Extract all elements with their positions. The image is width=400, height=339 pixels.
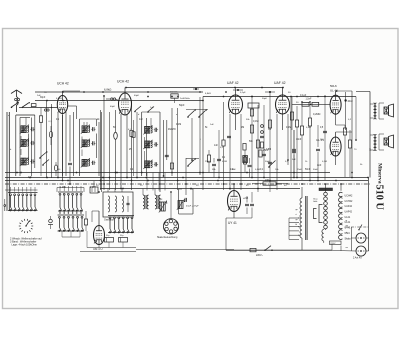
resistor R15 xyxy=(268,120,271,128)
value label 0,1M 5 xyxy=(176,124,181,126)
svg-text:L M K: L M K xyxy=(90,187,96,189)
svg-text:1nF: 1nF xyxy=(214,145,219,147)
svg-text:0,1M: 0,1M xyxy=(286,127,291,129)
capacitor C14 blob xyxy=(193,88,199,90)
filter cell L5 xyxy=(81,125,96,134)
junction dot 70 xyxy=(301,183,303,185)
junction dot 18 xyxy=(67,180,69,182)
value label2 0,1M 2 xyxy=(222,161,227,163)
wire x137 vertical xyxy=(136,112,138,178)
label Skalenbeleuchtung xyxy=(157,236,178,239)
junction dot 51 xyxy=(145,177,147,179)
junction dot 42 xyxy=(100,180,102,182)
coil cell L18 xyxy=(177,199,185,210)
junction dot 60 xyxy=(223,183,225,185)
rotary switch S4 xyxy=(19,219,33,233)
value label 1nF 19 xyxy=(230,169,235,171)
wire x252 vertical xyxy=(251,97,253,179)
value label2 2M 38 xyxy=(268,129,271,131)
wire mains to P2 xyxy=(332,250,356,253)
wire mains y250 xyxy=(226,249,332,251)
value label2 e 33 xyxy=(176,114,178,116)
wire x73.5 vertical xyxy=(73,112,75,176)
svg-text:UAF 42: UAF 42 xyxy=(274,81,286,85)
label 50pF xyxy=(179,104,185,107)
junction dot 77 xyxy=(355,139,357,141)
tube V8 UM4 magic eye xyxy=(94,226,105,245)
svg-text:50pF: 50pF xyxy=(179,104,185,107)
value label2 2nF 13 xyxy=(37,95,41,97)
junction dot 2 xyxy=(102,91,104,93)
box 462kHz xyxy=(171,94,178,103)
junction dot 43 xyxy=(103,183,105,185)
wire B stubs xyxy=(82,122,87,156)
svg-text:0,5M: 0,5M xyxy=(306,127,311,129)
value label2 70 43 xyxy=(354,149,357,151)
svg-text:Skalenbeleuchtung: Skalenbeleuchtung xyxy=(157,236,178,239)
output transformer T4 primary xyxy=(374,103,377,119)
svg-text:240: 240 xyxy=(265,179,270,182)
svg-text:2M: 2M xyxy=(241,127,244,129)
value label2 40pF 20 xyxy=(110,106,116,108)
jumper link bracket2 xyxy=(314,209,317,219)
junction dot 1 xyxy=(62,91,64,93)
wire S1 feeds xyxy=(11,187,36,192)
wire speaker2 frame xyxy=(370,134,384,150)
wire chain tops xyxy=(326,184,342,192)
svg-text:Grau: Grau xyxy=(313,199,317,201)
resistor R13 xyxy=(250,125,253,133)
wire elko bus y247.5 xyxy=(87,247,136,249)
value label2 0,1M 12 xyxy=(322,161,327,163)
tube V1 UCH42 xyxy=(57,96,67,114)
junction dot 11 xyxy=(282,87,284,89)
resistor R16 xyxy=(290,112,293,120)
tube V2 UCH42 xyxy=(119,93,132,115)
value label2 c 31 xyxy=(60,109,62,111)
capacitor C36 xyxy=(212,158,216,178)
heater chain loops xyxy=(339,192,343,239)
svg-text:+215: +215 xyxy=(243,198,249,200)
junction dot 45 xyxy=(115,172,117,174)
value label2 1nF 22 xyxy=(150,107,154,109)
svg-text:gn: gn xyxy=(296,209,298,211)
wire x66 vertical xyxy=(65,112,67,176)
capacitor C2 trim xyxy=(45,109,50,111)
junction dot 74 xyxy=(335,180,337,182)
component C2 small xyxy=(31,104,36,107)
value label2 b 30 xyxy=(10,149,12,151)
label Minerva xyxy=(377,163,383,184)
wire top screen bus y96.5 xyxy=(203,96,356,98)
value label2 60 28 xyxy=(284,185,287,187)
resistor R21 cathode V5 xyxy=(343,125,346,177)
value label 50nF 21 xyxy=(305,169,311,171)
wire x325 vertical xyxy=(324,95,326,180)
junction dot 33 xyxy=(170,191,172,193)
wire V7 anode up xyxy=(233,184,235,191)
junction dot 39 xyxy=(62,180,64,182)
junction dot 84 xyxy=(223,96,225,98)
value label2 f 34 xyxy=(200,139,201,141)
value label2 20 24 xyxy=(96,185,99,187)
switch S5 mains xyxy=(264,246,273,251)
wire x352 vertical xyxy=(351,91,353,177)
coil group L15 xyxy=(143,195,149,209)
output transformer T5 primary xyxy=(374,135,377,151)
value label2 30pF 18 xyxy=(262,98,268,100)
resistor R23 xyxy=(84,211,87,231)
resistor R31 box xyxy=(259,150,262,157)
wire lamp up xyxy=(170,192,172,219)
connector P2 xyxy=(356,246,366,256)
label heater UAF42a xyxy=(345,205,353,208)
label 462 xyxy=(170,92,178,94)
wire C stubs xyxy=(145,118,151,161)
capacitor C34 v4 xyxy=(292,130,296,178)
label 0,1M a xyxy=(253,120,258,123)
wire x368 vertical right xyxy=(366,178,369,252)
label V1 UCH42 xyxy=(57,82,69,86)
wire V3 cathode xyxy=(230,114,241,190)
junction dot 85 xyxy=(251,96,253,98)
svg-text:462kHz: 462kHz xyxy=(168,129,177,131)
wire bottom y249 mid xyxy=(136,249,234,251)
wire V4 anode xyxy=(282,88,284,96)
junction dot 88 xyxy=(309,101,311,103)
junction dot 30 xyxy=(351,177,353,179)
value label2 40pF 21 xyxy=(134,95,140,97)
junction dot 79 xyxy=(83,91,85,93)
value label2 0,5M 40 xyxy=(306,127,311,129)
wire x264 vertical xyxy=(263,105,265,178)
junction dot 68 xyxy=(293,172,295,174)
svg-text:47µF + 47µF: 47µF + 47µF xyxy=(186,206,199,208)
svg-text:UAF42: UAF42 xyxy=(345,211,353,214)
junction dot 9 xyxy=(251,96,253,98)
switch contact lone xyxy=(4,199,6,211)
filter cell L6 xyxy=(81,139,96,148)
wire x115.5 vertical xyxy=(115,110,117,190)
value label 1nF 7 xyxy=(214,145,219,147)
junction dot 46 xyxy=(120,188,122,190)
label oszillator xyxy=(104,219,114,222)
label heater UL41b xyxy=(345,221,351,224)
capacitor C22 cu xyxy=(227,136,231,137)
junction dot 19 xyxy=(102,177,104,179)
switch contact K10 xyxy=(22,102,30,108)
value label L M K 17 xyxy=(60,187,66,189)
junction dot 4 xyxy=(147,96,149,98)
svg-text:0,2MΩ: 0,2MΩ xyxy=(313,113,321,116)
value label2 70 14 xyxy=(44,92,47,94)
wire V5 cathode xyxy=(336,114,345,125)
speaker SP1 xyxy=(384,104,394,117)
wire bus y172.5 xyxy=(5,172,330,174)
value label 0,5M 11 xyxy=(266,149,271,151)
svg-text:L M K: L M K xyxy=(60,187,66,189)
wire V8 down xyxy=(98,245,100,248)
switch contact K3 xyxy=(134,106,141,112)
label 1,5nF xyxy=(306,98,312,100)
svg-text:Skala: Skala xyxy=(345,237,352,240)
value label2 0,2 42 xyxy=(348,119,352,121)
svg-text:510 U: 510 U xyxy=(374,185,385,211)
label 0,1 V1 xyxy=(49,121,53,123)
svg-text:2nF: 2nF xyxy=(37,95,41,97)
value label 5k 6 xyxy=(205,127,208,129)
svg-text:UCH42: UCH42 xyxy=(345,200,354,203)
choke T7 core xyxy=(306,196,307,240)
resistor R1 box xyxy=(39,108,42,177)
capacitor C16 xyxy=(217,159,221,160)
svg-text:1,5nF: 1,5nF xyxy=(306,98,312,100)
wire x370 lower segment xyxy=(369,148,371,178)
switch bank S2 contacts xyxy=(59,193,83,211)
antenna coil cell L2 xyxy=(20,125,35,134)
capacitor C9 grid xyxy=(106,98,120,101)
value label2 50pF 6 xyxy=(265,161,271,163)
junction dot 54 xyxy=(171,172,173,174)
wire left vertical x9.3 xyxy=(8,112,10,211)
resistor R20 0,2M xyxy=(308,105,320,180)
wire elko drops xyxy=(87,231,123,248)
switch contact K8 xyxy=(268,161,275,168)
svg-text:220V~: 220V~ xyxy=(256,254,264,257)
resistor R30 oval xyxy=(49,126,52,145)
wire top grid bus y92 xyxy=(35,91,203,93)
value label 0,1 1 xyxy=(56,119,60,121)
value label2 0,5M 5 xyxy=(255,169,260,171)
jumper link bracket1 xyxy=(319,205,323,223)
junction dot 72 xyxy=(317,177,319,179)
value label 0,1 20 xyxy=(260,169,264,171)
junction dot 6 xyxy=(202,100,204,102)
wire ladder vertical xyxy=(288,218,290,240)
svg-text:UCH 42: UCH 42 xyxy=(117,80,129,84)
value label2 25nF 0 xyxy=(205,161,211,163)
wire x46.5 vertical xyxy=(46,101,48,179)
junction dot 69 xyxy=(296,177,298,179)
wire x100.5 vertical xyxy=(100,110,102,190)
junction dot 82 xyxy=(171,96,173,98)
junction dot 15 xyxy=(336,90,338,92)
antenna A1 xyxy=(11,90,22,97)
switch bank S2 bottom rail xyxy=(58,210,83,212)
wire top bus y100.5 xyxy=(35,100,203,102)
value label2 a 29 xyxy=(8,115,10,117)
wire osc feeds xyxy=(108,189,155,196)
junction dot 71 xyxy=(309,180,311,182)
junction dot 17 xyxy=(46,177,48,179)
wire top anode bus y87.5 xyxy=(126,87,283,89)
wire bus y180.5 xyxy=(5,180,368,182)
switch bank S6 bottom rail xyxy=(108,232,134,234)
junction dot 3 xyxy=(125,87,127,89)
wire loop rect xyxy=(179,189,193,214)
capacitor C28 xyxy=(185,198,187,202)
value label2 5nF 39 xyxy=(292,159,296,161)
antenna coil cell L3 xyxy=(20,138,35,147)
speaker SP2 xyxy=(384,135,394,148)
label heater Skala xyxy=(345,237,352,240)
wire S2 bracket xyxy=(57,188,84,193)
wire x270 vertical xyxy=(269,92,271,192)
svg-text:0,5M: 0,5M xyxy=(255,169,260,171)
wire V6 anode up xyxy=(336,132,352,137)
tube V6 UL41 xyxy=(330,137,341,156)
switch contact K5 xyxy=(187,109,196,117)
junction dot 37 xyxy=(29,177,31,179)
junction dot 57 xyxy=(191,159,193,161)
value label2 5k 44 xyxy=(360,164,363,166)
wire V1 right pin xyxy=(68,106,77,119)
boxed resistor R18 xyxy=(312,102,319,106)
capacitor C23 xyxy=(292,149,296,150)
rotary switch S4 arm xyxy=(25,221,29,227)
coil cell L19 xyxy=(159,199,167,213)
junction row S2-S3 xyxy=(59,212,81,213)
value label2 50nF 11 xyxy=(313,169,319,171)
value label 2M 9 xyxy=(241,127,244,129)
svg-text:1M: 1M xyxy=(243,161,246,163)
value label 4nF 23 xyxy=(28,177,33,179)
svg-text:Oszillator: Oszillator xyxy=(104,219,114,222)
value label2 d 32 xyxy=(138,114,140,116)
junction dot 27 xyxy=(269,180,271,182)
value label2 0,1µF 17 xyxy=(240,92,246,94)
switch bank S2 top rail xyxy=(58,191,83,193)
wire x370 vertical feed xyxy=(356,92,370,152)
junction dot 25 xyxy=(233,183,235,185)
detector chain beads xyxy=(260,125,264,148)
svg-text:2M: 2M xyxy=(268,129,271,131)
resistor R12b xyxy=(250,109,253,116)
switch bank S1 contacts xyxy=(10,194,37,211)
svg-text:25nF: 25nF xyxy=(297,169,303,171)
junction dot 5 xyxy=(177,96,179,98)
label T7 taps xyxy=(296,209,299,226)
wire V7 cathode down xyxy=(226,212,252,251)
capacitor C1 trim xyxy=(15,98,20,103)
svg-text:10nF: 10nF xyxy=(296,139,302,141)
IF cell L8 xyxy=(143,125,158,134)
capacitor C26 40nF xyxy=(344,92,353,130)
junction dot 22 xyxy=(182,177,184,179)
wire to connectors xyxy=(341,227,356,251)
value label2 50k 1 xyxy=(212,169,216,171)
value label 10nF 13 xyxy=(296,139,302,141)
svg-text:5nF: 5nF xyxy=(292,159,296,161)
antenna coupling coil L1 xyxy=(17,97,19,112)
capacitor C27 xyxy=(126,196,129,212)
label 0,1uF xyxy=(300,94,307,97)
value label2 6,8kΩ 16 xyxy=(205,93,211,95)
label V3 UAF42 xyxy=(227,81,239,85)
svg-text:25nF: 25nF xyxy=(205,161,211,163)
label 25nF xyxy=(263,149,269,152)
junction dot 66 xyxy=(276,183,278,185)
svg-text:2 Ant 4U: 2 Ant 4U xyxy=(353,257,362,260)
value label 30pF 0 xyxy=(40,97,46,99)
wire x109.5 vertical xyxy=(109,112,111,190)
wire x291 vertical xyxy=(290,96,292,180)
junction dot 40 xyxy=(69,183,71,185)
resistor R10 box xyxy=(222,140,225,146)
wire S1 bracket xyxy=(5,189,38,191)
svg-text:UCH 42: UCH 42 xyxy=(57,82,69,86)
value label2 5nF 3 xyxy=(232,169,236,171)
wire x203 vertical xyxy=(202,97,204,191)
label Grau Gelb xyxy=(313,199,318,204)
wire C inner verticals xyxy=(160,108,172,192)
wire B inner verticals xyxy=(97,112,102,192)
legend text line3 xyxy=(12,244,37,247)
junction dot 32 xyxy=(98,191,100,193)
svg-text:40nF: 40nF xyxy=(348,101,354,103)
wire x58 vertical xyxy=(57,112,59,178)
svg-text:Minerva: Minerva xyxy=(377,163,383,184)
junction dot 26 xyxy=(251,177,253,179)
svg-text:1nF: 1nF xyxy=(139,119,144,121)
wire V2 right pin down xyxy=(126,114,128,178)
wire S2 feeds xyxy=(60,186,81,191)
wire left vertical x7 xyxy=(6,112,8,211)
wire x192 vertical xyxy=(191,118,193,162)
capacitor C7 xyxy=(68,163,72,164)
junction dot 29 xyxy=(317,180,319,182)
capacitor C25 xyxy=(323,131,327,132)
value label2 0,1 8 xyxy=(285,161,289,163)
switch bank S3 bottom rail xyxy=(58,230,85,232)
boxed resistor R17 xyxy=(302,102,309,106)
resistor R12 1nF box xyxy=(248,103,259,108)
capacitor C21 xyxy=(268,162,272,163)
svg-text:Lage: 4-fach 100kOhm: Lage: 4-fach 100kOhm xyxy=(12,244,37,247)
label connector xyxy=(353,257,362,260)
switch contact K2 xyxy=(42,160,49,166)
junction dot 64 xyxy=(257,188,259,190)
svg-text:0,1µF: 0,1µF xyxy=(300,94,307,97)
wire B outer rect xyxy=(80,119,97,176)
wire x186 vertical xyxy=(185,158,187,195)
resistor R19 xyxy=(300,105,303,180)
switch bank S1 top rail xyxy=(8,192,38,194)
wire x177.6 vertical xyxy=(177,108,179,190)
label heater UM4 xyxy=(345,232,351,235)
switch contact K7 xyxy=(187,158,196,167)
label 6,8k xyxy=(104,88,111,92)
switch bank S1 bottom rail xyxy=(8,210,38,212)
svg-text:UL41: UL41 xyxy=(345,216,351,219)
coil group L16 xyxy=(155,195,161,209)
svg-text:5nF: 5nF xyxy=(232,169,236,171)
junction dot 12 xyxy=(290,96,292,98)
junction dot 36 xyxy=(20,172,22,174)
wire V2 cathode down xyxy=(120,114,122,189)
resistor R36 xyxy=(243,150,246,173)
wire V1 anode up xyxy=(63,91,81,96)
label 4nF 2kV xyxy=(317,164,322,167)
wire A inner verticals xyxy=(28,115,34,176)
label heater UY41 xyxy=(345,227,352,230)
junction dot 48 xyxy=(131,180,133,182)
svg-text:40pF: 40pF xyxy=(134,95,140,97)
svg-text:462 kHz: 462 kHz xyxy=(170,92,178,94)
wire contact tie y159 xyxy=(186,158,199,160)
value label 0,1M 12 xyxy=(286,127,291,129)
capacitor C29 ripple xyxy=(245,196,249,214)
